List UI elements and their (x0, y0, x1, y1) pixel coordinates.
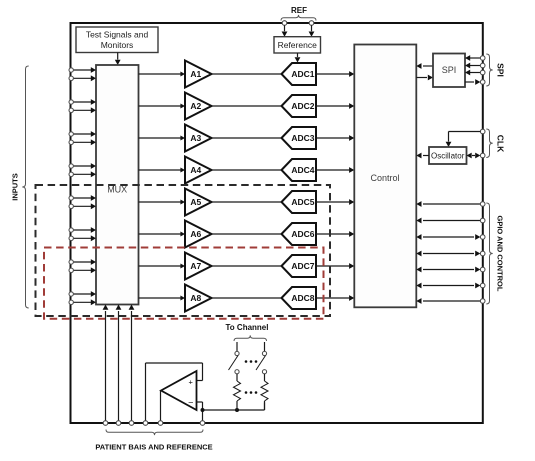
wire GPIO 7 (416, 298, 480, 304)
pin bottom 5 (158, 421, 163, 426)
wire ADC3 to Control (316, 135, 354, 141)
wire CLK to Oscillator (446, 132, 481, 148)
pin REF1 (282, 21, 287, 26)
amplifier A6 (185, 221, 212, 248)
pin REF2 (309, 21, 314, 26)
input pin ch8 (69, 291, 96, 297)
highlight group black dashed (36, 185, 331, 316)
wire ADC4 to Control (316, 167, 354, 173)
device boundary (71, 23, 483, 423)
svg-text:−: − (188, 398, 193, 408)
pin GPIO 7 (480, 299, 485, 304)
wire GPIO 4 (416, 251, 480, 257)
wire SPI to Control (416, 63, 433, 69)
pin SPI 4 (480, 80, 485, 85)
svg-text:Test Signals and: Test Signals and (86, 30, 149, 40)
node feedback junction (201, 408, 205, 412)
svg-text:ADC3: ADC3 (291, 133, 314, 143)
svg-text:+: + (189, 377, 194, 386)
wire GPIO 2 (416, 218, 480, 224)
node resistor junction (235, 408, 239, 412)
adc ADC2 (282, 95, 317, 117)
wire bias to MUX 1 (103, 305, 109, 421)
dots switches (245, 360, 258, 363)
wire MUX to A2 (139, 104, 186, 109)
svg-text:A2: A2 (190, 101, 201, 111)
wire GPIO 3 (416, 234, 480, 240)
svg-text:SPI: SPI (496, 63, 506, 77)
pin GPIO 4 (480, 251, 485, 256)
wire A8 to ADC8 (212, 297, 283, 299)
svg-text:REF: REF (291, 6, 307, 15)
input pin ch5 (69, 195, 96, 201)
wire SPI pin 3 (465, 70, 480, 76)
svg-text:A6: A6 (190, 229, 201, 239)
svg-text:SPI: SPI (442, 65, 457, 75)
wire MUX to A6 (139, 232, 186, 237)
input pin ch3 (69, 131, 96, 137)
wire A3 to ADC3 (212, 137, 283, 139)
wire ADC2 to Control (316, 103, 354, 109)
pin SPI 1 (480, 56, 485, 61)
svg-text:A7: A7 (190, 261, 201, 271)
input pin ch2 (69, 107, 96, 113)
pin bottom 1 (103, 421, 108, 426)
amplifier A3 (185, 125, 212, 152)
resistor R2 (261, 374, 268, 410)
wire ADC5 to Control (316, 199, 354, 205)
wire A4 to ADC4 (212, 169, 283, 171)
amplifier A5 (185, 189, 212, 216)
wire Reference to ADC1 (295, 53, 301, 63)
wire bias to MUX 2 (116, 305, 122, 421)
input pin ch5 (69, 203, 96, 209)
wire GPIO 6 (416, 283, 480, 289)
adc ADC5 (282, 191, 317, 213)
brace SPI (486, 54, 492, 86)
svg-text:A8: A8 (190, 293, 201, 303)
adc ADC7 (282, 255, 317, 277)
wire REF pin1 to Reference (282, 25, 288, 36)
wire ADC8 to Control (316, 295, 354, 301)
pin CLK in (480, 129, 485, 134)
pin SPI 2 (480, 63, 485, 68)
svg-text:ADC1: ADC1 (291, 69, 314, 79)
svg-text:A4: A4 (190, 165, 201, 175)
wire ADC6 to Control (316, 231, 354, 237)
brace patient bias (106, 430, 203, 436)
svg-text:CLK: CLK (496, 135, 506, 153)
block SPI (433, 54, 465, 88)
input pin ch6 (69, 227, 96, 233)
adc ADC6 (282, 223, 317, 245)
wire test box to MUX (115, 53, 121, 66)
block Control (354, 45, 416, 308)
wire MUX to A4 (139, 168, 186, 173)
switch S1 (229, 342, 240, 374)
block Test Signals and Monitors (76, 27, 158, 53)
input pin ch1 (69, 67, 96, 73)
svg-text:ADC2: ADC2 (291, 101, 314, 111)
wire MUX to A3 (139, 136, 186, 141)
input pin ch3 (69, 139, 96, 145)
block Reference (274, 37, 321, 53)
input pin ch1 (69, 75, 96, 81)
input pin ch7 (69, 259, 96, 265)
svg-text:Control: Control (370, 173, 399, 183)
amplifier A4 (185, 157, 212, 184)
svg-text:A3: A3 (190, 133, 201, 143)
amplifier A1 (185, 61, 212, 88)
adc ADC1 (282, 63, 317, 85)
svg-text:ADC4: ADC4 (291, 165, 314, 175)
svg-text:ADC7: ADC7 (291, 261, 314, 271)
pin GPIO 5 (480, 267, 485, 272)
wire GPIO 1 (416, 201, 480, 207)
wire ADC7 to Control (316, 263, 354, 269)
block Oscillator (429, 147, 467, 164)
svg-text:INPUTS: INPUTS (10, 173, 19, 201)
adc ADC4 (282, 159, 317, 181)
wire MUX to A1 (139, 72, 186, 77)
svg-text:A1: A1 (190, 69, 201, 79)
wire op-amp noninverting loop (146, 363, 203, 421)
wire op-amp output (160, 391, 162, 421)
wire ADC1 to Control (316, 71, 354, 77)
input pin ch8 (69, 299, 96, 305)
wire MUX to A5 (139, 200, 186, 205)
highlight group red dashed (44, 248, 324, 319)
pin bottom 3 (129, 421, 134, 426)
wire A7 to ADC7 (212, 265, 283, 267)
wire op-amp feedback (197, 402, 265, 421)
svg-text:PATIENT BAIS AND REFERENCE: PATIENT BAIS AND REFERENCE (95, 443, 212, 452)
svg-text:Reference: Reference (278, 40, 317, 50)
wire Oscillator to Control (416, 153, 429, 159)
wire A6 to ADC6 (212, 233, 283, 235)
pin bottom 2 (116, 421, 121, 426)
wire A1 to ADC1 (212, 73, 283, 75)
pin GPIO 6 (480, 283, 485, 288)
pin bottom 4 (143, 421, 148, 426)
brace To Channel (234, 335, 267, 341)
svg-text:To Channel: To Channel (226, 323, 269, 332)
wire bias to MUX 3 (129, 305, 135, 421)
pin bottom 6 (200, 421, 205, 426)
wire A5 to ADC5 (212, 201, 283, 203)
svg-text:A5: A5 (190, 197, 201, 207)
svg-text:Monitors: Monitors (101, 40, 134, 50)
svg-text:GPIO AND CONTROL: GPIO AND CONTROL (496, 216, 505, 292)
wire SPI pin 4 (465, 79, 480, 85)
brace GPIO (486, 203, 492, 304)
wire Oscillator to CLK pin (467, 153, 481, 159)
input pin ch7 (69, 267, 96, 273)
brace CLK (486, 129, 492, 158)
block MUX (96, 65, 139, 305)
resistor R1 (234, 374, 241, 410)
pin GPIO 1 (480, 202, 485, 207)
input pin ch2 (69, 99, 96, 105)
wire REF pin2 to Reference (309, 25, 315, 36)
adc ADC8 (282, 287, 317, 309)
wire MUX to A8 (139, 296, 186, 301)
wire SPI pin 1 (465, 55, 480, 61)
input pin ch4 (69, 171, 96, 177)
wire Control to SPI (416, 75, 433, 81)
input pin ch4 (69, 163, 96, 169)
pin GPIO 2 (480, 218, 485, 223)
amplifier A2 (185, 93, 212, 120)
pin CLK out (480, 153, 485, 158)
svg-text:ADC5: ADC5 (291, 197, 314, 207)
amplifier A8 (185, 285, 212, 312)
dots resistors (245, 391, 258, 394)
svg-text:ADC8: ADC8 (291, 293, 314, 303)
wire GPIO 5 (416, 267, 480, 273)
amplifier A7 (185, 253, 212, 280)
svg-text:Oscillator: Oscillator (431, 151, 465, 160)
input pin ch6 (69, 235, 96, 241)
pin SPI 3 (480, 70, 485, 75)
wire MUX to A7 (139, 264, 186, 269)
wire A2 to ADC2 (212, 105, 283, 107)
op-amp U1 (161, 371, 197, 410)
pin GPIO 3 (480, 235, 485, 240)
brace REF pins (281, 15, 316, 21)
wire SPI pin 2 (465, 63, 480, 69)
switch S2 (256, 342, 267, 374)
svg-text:ADC6: ADC6 (291, 229, 314, 239)
brace INPUTS (22, 66, 28, 308)
adc ADC3 (282, 127, 317, 149)
